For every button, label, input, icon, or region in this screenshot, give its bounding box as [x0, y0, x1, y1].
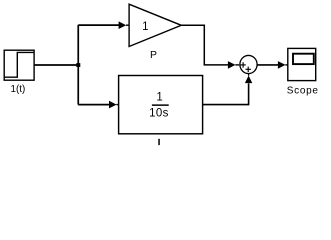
label I	[158, 139, 160, 145]
wire integrator to sum	[203, 83, 249, 104]
node junction	[76, 63, 80, 67]
plus sign bottom input	[246, 67, 251, 72]
wire junction to gain	[78, 24, 119, 26]
svg-text:1: 1	[156, 92, 162, 104]
arrowhead into sum bottom	[245, 76, 252, 84]
wire junction to integrator	[78, 104, 109, 106]
svg-text:1: 1	[142, 21, 148, 33]
integrator block I (1/10s)	[119, 76, 203, 134]
wire gain to sum	[181, 25, 228, 65]
plus sign left input	[240, 62, 245, 67]
scope block	[288, 48, 316, 80]
gain triangle P	[129, 4, 181, 46]
svg-text:P: P	[150, 50, 157, 61]
step source block 1(t)	[4, 50, 34, 80]
arrowhead into scope	[278, 61, 286, 69]
wire step to junction	[34, 64, 78, 66]
arrowhead into gain	[119, 21, 127, 29]
svg-text:1(t): 1(t)	[11, 84, 26, 95]
svg-text:10s: 10s	[149, 108, 169, 120]
wire sum to scope	[257, 64, 278, 66]
sum block	[240, 55, 257, 73]
arrowhead into integrator	[109, 101, 117, 109]
svg-text:Scope: Scope	[287, 85, 319, 96]
arrowhead into sum left	[228, 61, 236, 69]
wire junction vertical branch	[77, 25, 79, 105]
